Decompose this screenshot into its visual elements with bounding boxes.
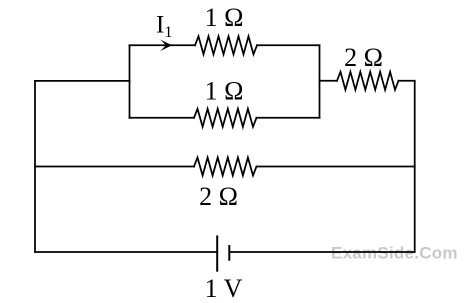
resistor R1 1 ohm (top branch): [195, 36, 257, 54]
node B: parallel block right edge: [319, 45, 321, 118]
wire: middle rail left segment: [35, 166, 194, 168]
resistor R3 2 ohm (series right): [337, 72, 399, 90]
resistor R4 2 ohm (middle rail): [194, 158, 257, 176]
wire: from 2 ohm to right corner: [399, 80, 415, 82]
wire: outer left vertical: [34, 81, 36, 252]
wire: top-left horizontal to parallel block: [35, 80, 130, 82]
svg-text:ExamSide.Com: ExamSide.Com: [331, 244, 458, 263]
wire: top branch right segment: [257, 44, 320, 46]
wire: bottom rail right of battery: [229, 251, 414, 253]
wire: lower branch right segment: [257, 117, 320, 119]
wire: top branch left segment: [130, 44, 196, 46]
wire: middle rail right segment: [257, 166, 415, 168]
svg-text:2 Ω: 2 Ω: [199, 182, 238, 211]
svg-text:1 Ω: 1 Ω: [205, 77, 244, 106]
svg-text:2 Ω: 2 Ω: [344, 43, 383, 72]
battery V1 short plate: [228, 246, 230, 260]
wire: lower branch left segment: [130, 117, 195, 119]
battery V1 long plate: [216, 236, 218, 270]
wire: outer right vertical: [414, 81, 416, 252]
current arrow I1: [160, 40, 172, 51]
svg-text:1 V: 1 V: [205, 274, 243, 303]
wire: mid horizontal to 2 ohm: [320, 80, 338, 82]
wire: bottom rail left of battery: [35, 251, 217, 253]
svg-text:1 Ω: 1 Ω: [205, 3, 244, 32]
resistor R2 1 ohm (lower branch): [194, 109, 257, 127]
node A: parallel block left edge: [129, 45, 131, 118]
